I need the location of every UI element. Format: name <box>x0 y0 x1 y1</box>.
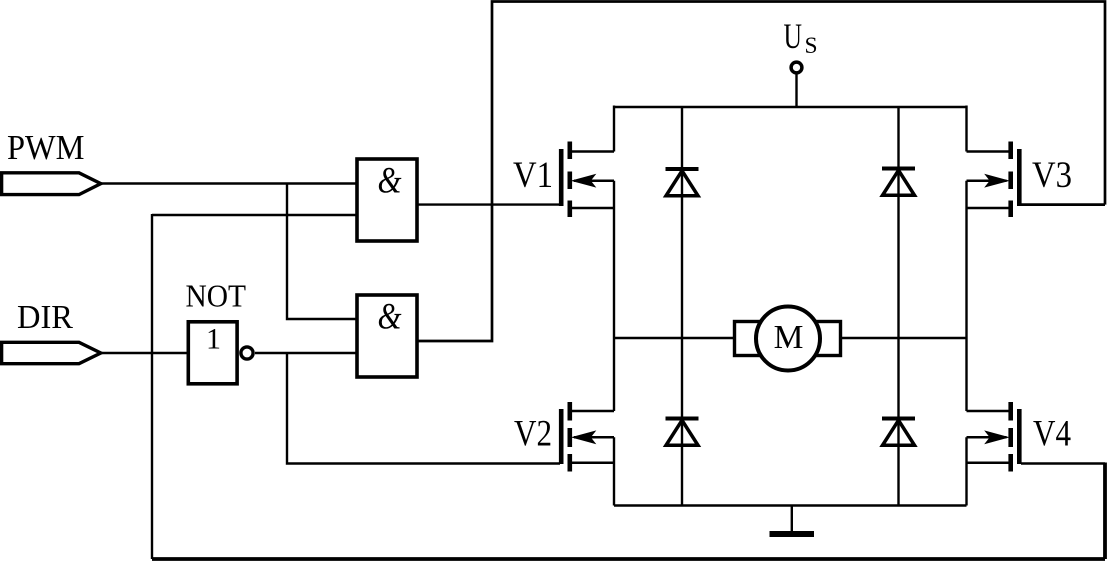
svg-text:&: & <box>378 161 402 202</box>
svg-text:M: M <box>774 319 804 356</box>
svg-text:S: S <box>805 33 818 59</box>
svg-text:V3: V3 <box>1032 155 1072 196</box>
svg-text:NOT: NOT <box>186 278 247 313</box>
svg-text:V1: V1 <box>513 155 553 196</box>
svg-text:DIR: DIR <box>17 299 73 336</box>
svg-text:V2: V2 <box>514 414 552 455</box>
svg-text:PWM: PWM <box>7 128 85 167</box>
svg-text:V4: V4 <box>1033 414 1071 455</box>
svg-text:U: U <box>784 16 803 56</box>
svg-text:&: & <box>378 296 402 337</box>
svg-text:1: 1 <box>206 322 221 355</box>
